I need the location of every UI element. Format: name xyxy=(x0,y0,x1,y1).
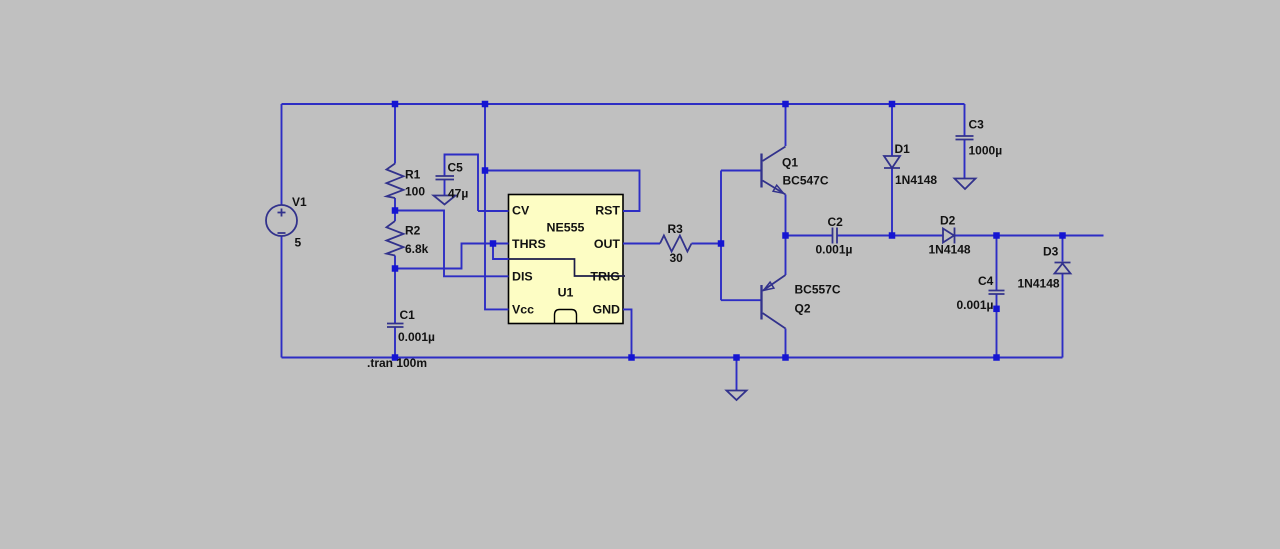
svg-text:C2: C2 xyxy=(828,215,844,229)
svg-text:C5: C5 xyxy=(448,161,464,175)
svg-text:Q1: Q1 xyxy=(782,156,798,170)
svg-text:BC547C: BC547C xyxy=(783,174,829,188)
svg-text:C4: C4 xyxy=(978,274,994,288)
svg-text:100: 100 xyxy=(405,185,425,199)
svg-text:0.001µ: 0.001µ xyxy=(398,330,435,344)
svg-text:BC557C: BC557C xyxy=(795,283,841,297)
svg-text:1N4148: 1N4148 xyxy=(1018,277,1060,291)
svg-text:RST: RST xyxy=(595,203,620,217)
svg-text:47µ: 47µ xyxy=(448,187,468,201)
svg-text:GND: GND xyxy=(592,303,620,317)
svg-text:R1: R1 xyxy=(405,168,421,182)
svg-text:0.001µ: 0.001µ xyxy=(957,298,994,312)
svg-text:C1: C1 xyxy=(400,308,416,322)
svg-text:D2: D2 xyxy=(940,214,956,228)
svg-text:R2: R2 xyxy=(405,224,421,238)
svg-text:THRS: THRS xyxy=(512,237,546,251)
svg-text:5: 5 xyxy=(295,236,302,250)
svg-text:D3: D3 xyxy=(1043,245,1059,259)
svg-text:V1: V1 xyxy=(292,195,307,209)
svg-text:C3: C3 xyxy=(969,118,985,132)
svg-text:0.001µ: 0.001µ xyxy=(816,243,853,257)
svg-text:.tran 100m: .tran 100m xyxy=(367,356,427,370)
svg-text:D1: D1 xyxy=(895,142,911,156)
svg-text:R3: R3 xyxy=(668,222,684,236)
svg-text:30: 30 xyxy=(670,251,684,265)
svg-text:Q2: Q2 xyxy=(795,302,811,316)
svg-text:1000µ: 1000µ xyxy=(969,144,1003,158)
svg-text:CV: CV xyxy=(512,203,530,217)
svg-text:OUT: OUT xyxy=(594,237,621,251)
svg-text:U1: U1 xyxy=(558,285,574,299)
svg-text:6.8k: 6.8k xyxy=(405,242,429,256)
svg-text:1N4148: 1N4148 xyxy=(895,173,937,187)
svg-text:NE555: NE555 xyxy=(547,220,585,234)
svg-text:DIS: DIS xyxy=(512,270,533,284)
svg-text:1N4148: 1N4148 xyxy=(929,243,971,257)
svg-text:TRIG: TRIG xyxy=(590,270,620,284)
svg-text:Vcc: Vcc xyxy=(512,303,534,317)
